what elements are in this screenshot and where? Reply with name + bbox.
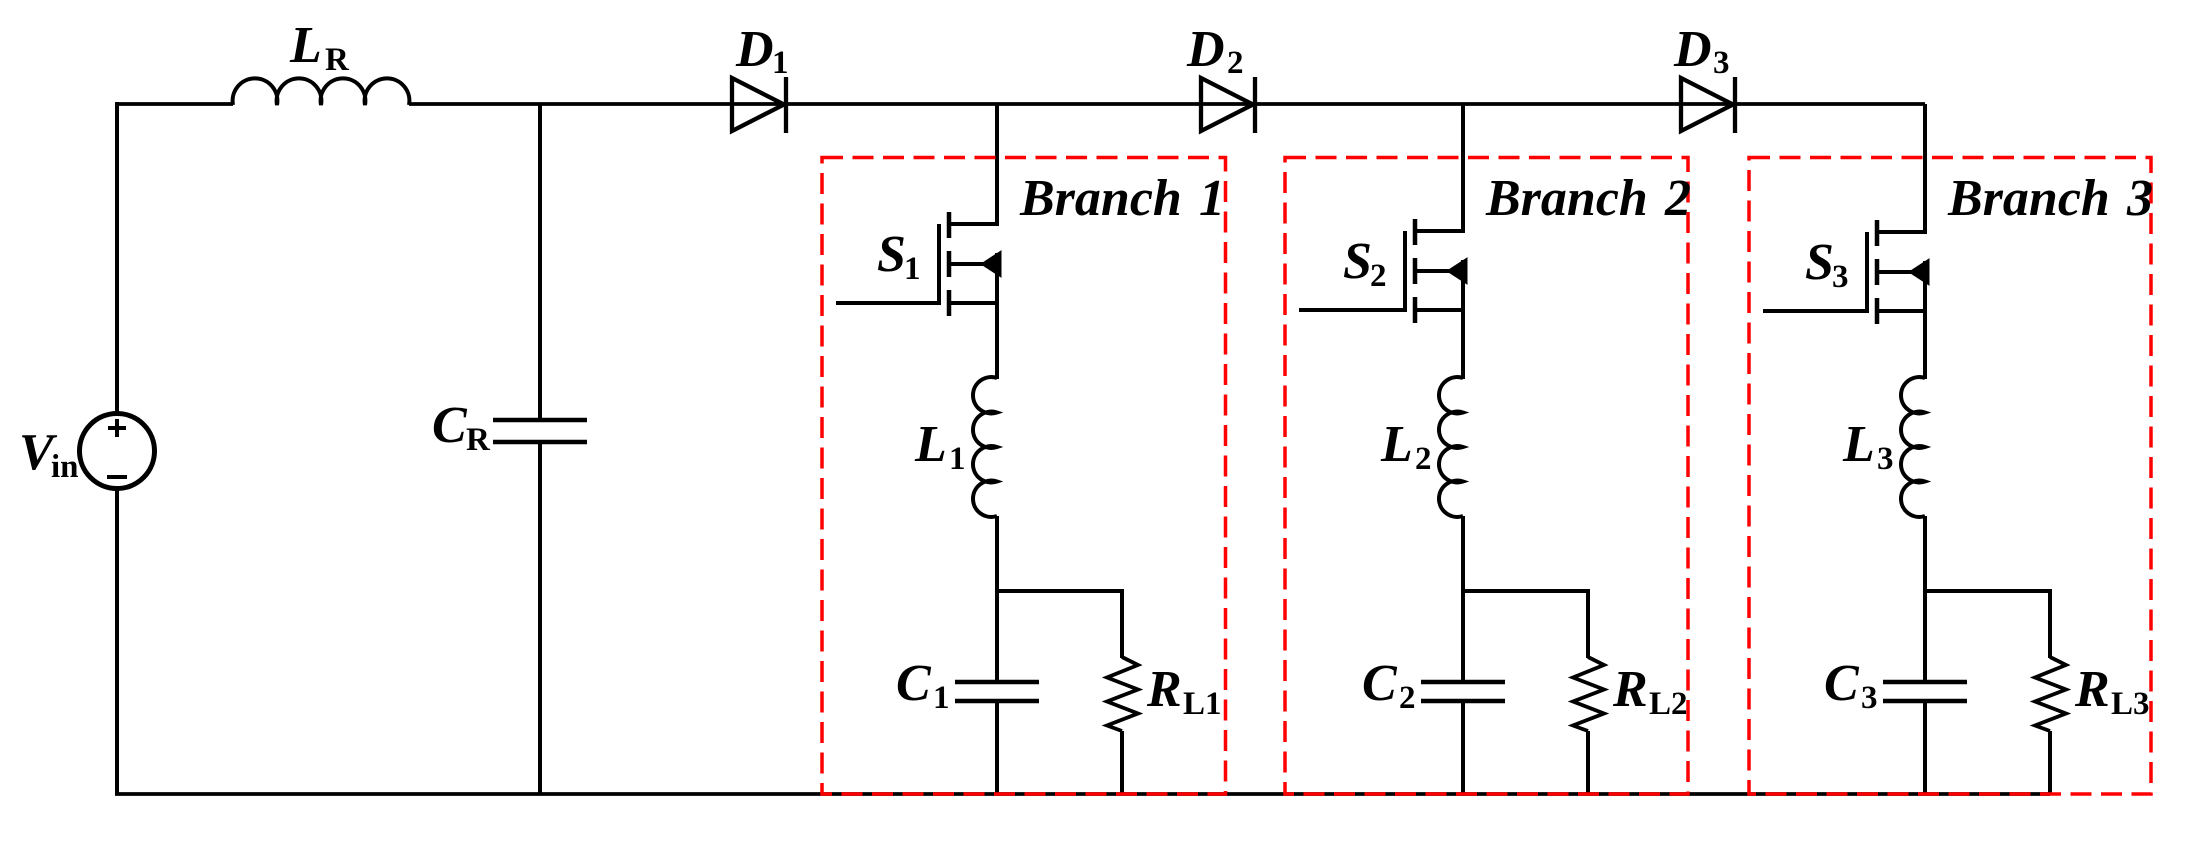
svg-text:3: 3: [1713, 45, 1730, 81]
svg-text:L1: L1: [1183, 686, 1222, 722]
wire capacitor to bottom rail: [995, 701, 999, 794]
resistor RL2: [1573, 657, 1604, 731]
svg-text:S: S: [877, 226, 906, 283]
svg-text:R: R: [325, 42, 350, 78]
wire capacitor to bottom rail: [1923, 701, 1927, 794]
wire source to inductor: [995, 253, 999, 379]
svg-text:L: L: [289, 17, 322, 74]
svg-text:Branch: Branch: [1485, 170, 1648, 227]
svg-text:L: L: [1842, 416, 1875, 473]
svg-text:3: 3: [1877, 441, 1894, 477]
svg-text:3: 3: [2126, 170, 2153, 227]
wire top rail left segment: [115, 102, 233, 106]
wire source to inductor: [1461, 260, 1465, 379]
branch 3 dashed box: [1749, 158, 2151, 795]
svg-text:2: 2: [1227, 45, 1244, 81]
svg-text:L: L: [1380, 416, 1413, 473]
svg-text:L: L: [914, 416, 947, 473]
svg-text:C: C: [432, 397, 468, 454]
branch 2 dashed box: [1285, 158, 1688, 795]
capacitor CR: [493, 418, 587, 423]
wire capacitor to bottom rail: [1461, 701, 1465, 794]
capacitor C1: [955, 680, 1039, 685]
wire junction to resistor: [1461, 589, 1588, 593]
svg-text:D: D: [1673, 21, 1712, 78]
wire branch 2 drop from rail: [1461, 104, 1465, 233]
wire left vertical upper: [115, 102, 119, 414]
svg-text:C: C: [1362, 655, 1398, 712]
wire junction to resistor: [995, 589, 1122, 593]
svg-text:in: in: [51, 449, 79, 485]
svg-text:2: 2: [1370, 258, 1387, 294]
branch 1 dashed box: [822, 158, 1226, 795]
wire junction to resistor: [1923, 589, 2050, 593]
svg-text:R: R: [466, 422, 491, 458]
resistor RL1: [1107, 657, 1138, 731]
svg-text:1: 1: [904, 251, 921, 287]
wire CR bottom: [538, 442, 542, 794]
svg-text:2: 2: [1664, 170, 1691, 227]
wire source to inductor: [1923, 261, 1927, 379]
svg-text:1: 1: [772, 45, 789, 81]
svg-text:C: C: [896, 655, 932, 712]
diode D2: [1201, 78, 1253, 131]
svg-text:D: D: [735, 21, 774, 78]
svg-text:R: R: [2074, 661, 2110, 718]
voltage source Vin: [80, 414, 155, 489]
wire inductor to capacitor: [995, 516, 999, 682]
svg-text:L2: L2: [1649, 686, 1688, 722]
inductor LR: [233, 78, 410, 105]
svg-text:Branch: Branch: [1947, 170, 2110, 227]
inductor L1: [973, 377, 997, 517]
inductor L3: [1901, 377, 1925, 517]
wire inductor to capacitor: [1461, 516, 1465, 682]
transistor S2: [1413, 229, 1463, 233]
svg-text:D: D: [1186, 21, 1225, 78]
transistor S1: [947, 222, 997, 226]
svg-text:1: 1: [1199, 170, 1225, 227]
wire branch 1 drop from rail: [995, 104, 999, 226]
wire left vertical lower: [115, 489, 119, 795]
svg-text:S: S: [1805, 234, 1834, 291]
resistor RL3: [2035, 657, 2066, 731]
svg-text:R: R: [1146, 661, 1182, 718]
svg-text:R: R: [1612, 661, 1648, 718]
wire branch 3 drop from rail: [1923, 104, 1927, 234]
inductor L2: [1439, 377, 1463, 517]
transistor S3: [1875, 230, 1925, 234]
svg-text:3: 3: [1861, 680, 1878, 716]
wire top rail main segment: [409, 102, 1925, 106]
capacitor C2: [1421, 680, 1505, 685]
wire inductor to capacitor: [1923, 516, 1927, 682]
svg-text:C: C: [1824, 655, 1860, 712]
svg-text:L3: L3: [2111, 686, 2150, 722]
diode D3: [1681, 78, 1733, 131]
svg-text:2: 2: [1415, 441, 1432, 477]
wire bottom rail: [115, 792, 2050, 796]
svg-text:2: 2: [1399, 680, 1416, 716]
svg-text:1: 1: [949, 441, 966, 477]
svg-text:1: 1: [933, 680, 950, 716]
wire CR top: [538, 104, 542, 420]
capacitor C3: [1883, 680, 1967, 685]
svg-text:3: 3: [1832, 259, 1849, 295]
diode D1: [732, 78, 784, 131]
svg-text:Branch: Branch: [1019, 170, 1182, 227]
svg-text:S: S: [1343, 233, 1372, 290]
